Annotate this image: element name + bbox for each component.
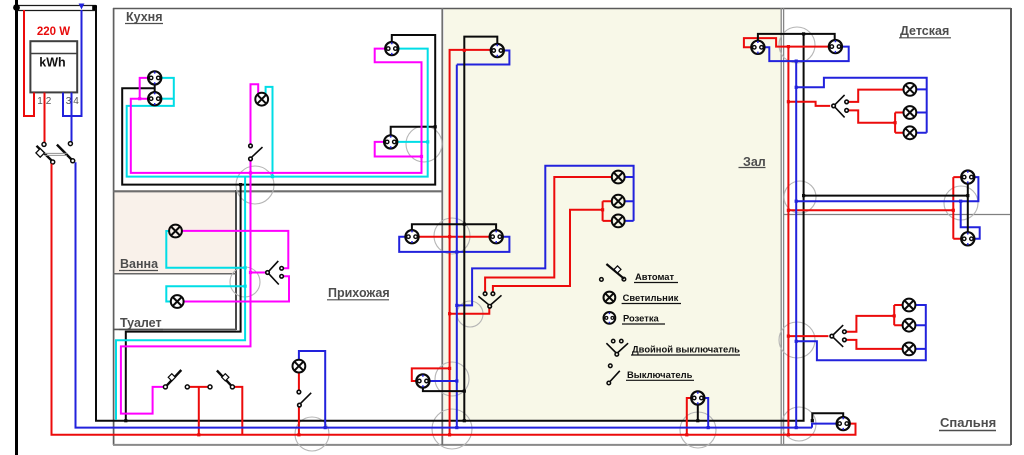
svg-text:Спальня: Спальня — [940, 415, 996, 430]
svg-text:Выключатель: Выключатель — [627, 369, 693, 380]
svg-text:Ванна: Ванна — [120, 257, 159, 271]
svg-text:kWh: kWh — [39, 56, 65, 70]
svg-text:Кухня: Кухня — [126, 10, 163, 24]
svg-text:Туалет: Туалет — [120, 316, 162, 330]
svg-text:220 W: 220 W — [37, 26, 70, 38]
svg-text:Прихожая: Прихожая — [328, 286, 390, 300]
svg-text:Светильник: Светильник — [623, 292, 679, 303]
svg-text:Детская: Детская — [900, 24, 949, 38]
svg-text:Розетка: Розетка — [623, 313, 660, 324]
svg-text:4: 4 — [73, 96, 79, 107]
svg-text:2: 2 — [46, 96, 52, 107]
svg-text:Двойной выключатель: Двойной выключатель — [632, 344, 740, 355]
svg-text:Автомат: Автомат — [635, 271, 675, 282]
svg-text:1: 1 — [37, 96, 43, 107]
